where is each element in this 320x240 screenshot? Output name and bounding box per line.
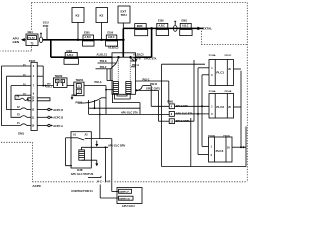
svg-text:A,B,C: A,B,C xyxy=(182,24,189,27)
svg-text:EPLC CNTL: EPLC CNTL xyxy=(176,120,191,123)
svg-text:EPLC STA: EPLC STA xyxy=(176,105,188,108)
svg-text:GEN: GEN xyxy=(13,40,20,44)
svg-text:P62-R: P62-R xyxy=(134,57,141,60)
svg-text:COIL-1: COIL-1 xyxy=(46,87,54,89)
svg-text:T1,T2: T1,T2 xyxy=(28,37,35,40)
svg-text:GPLC STA: GPLC STA xyxy=(144,57,157,60)
svg-text:P407: P407 xyxy=(29,59,36,63)
svg-text:P310B: P310B xyxy=(225,91,232,93)
svg-text:ACPC D: ACPC D xyxy=(53,108,63,112)
svg-text:K2: K2 xyxy=(100,13,104,17)
svg-text:A,B,C: A,B,C xyxy=(108,36,115,39)
svg-text:GB1: GB1 xyxy=(28,30,34,34)
svg-text:ACPC: ACPC xyxy=(32,184,42,188)
svg-text:P62-E: P62-E xyxy=(100,60,107,63)
svg-text:K38: K38 xyxy=(77,168,83,172)
svg-text:A,B,C: A,B,C xyxy=(67,54,74,57)
svg-text:28V: 28V xyxy=(47,84,51,86)
svg-text:P62-B: P62-B xyxy=(76,101,83,104)
svg-text:PB61: PB61 xyxy=(167,101,174,104)
svg-text:APU GLC STATUS: APU GLC STATUS xyxy=(71,172,94,176)
svg-text:A,B,C: A,B,C xyxy=(85,36,92,39)
svg-text:A2,B2,C2: A2,B2,C2 xyxy=(108,47,119,50)
svg-text:A3,B3,C3: A3,B3,C3 xyxy=(133,54,144,57)
svg-text:A5MP2-15: A5MP2-15 xyxy=(119,197,130,200)
svg-text:E305: E305 xyxy=(84,31,90,34)
svg-text:A1,B1,C1: A1,B1,C1 xyxy=(97,54,108,57)
svg-text:CONTACTOR #1: CONTACTOR #1 xyxy=(71,189,93,193)
svg-text:P310A: P310A xyxy=(209,54,216,57)
svg-text:A,B,C: A,B,C xyxy=(159,24,166,27)
svg-text:TB201: TB201 xyxy=(76,78,84,82)
svg-text:TB262: TB262 xyxy=(55,74,63,78)
svg-text:E106: E106 xyxy=(108,31,114,34)
svg-text:P62-A: P62-A xyxy=(95,81,102,84)
svg-text:EXTAL: EXTAL xyxy=(203,27,213,31)
svg-text:E801: E801 xyxy=(182,20,188,23)
svg-text:PLC3: PLC3 xyxy=(216,149,224,153)
svg-text:APU GLC STA: APU GLC STA xyxy=(121,111,138,114)
svg-text:APU GLC DRV: APU GLC DRV xyxy=(108,144,126,147)
svg-text:P310A: P310A xyxy=(209,90,216,93)
svg-text:ACPC A: ACPC A xyxy=(53,124,63,128)
svg-text:K3: K3 xyxy=(76,13,80,17)
svg-text:P310A: P310A xyxy=(208,134,215,137)
svg-text:P310C: P310C xyxy=(223,135,230,137)
svg-text:E106: E106 xyxy=(158,20,164,23)
svg-text:TRU: TRU xyxy=(121,13,127,17)
svg-text:PLC1: PLC1 xyxy=(216,71,224,75)
svg-text:ACPC B: ACPC B xyxy=(53,116,63,120)
svg-text:P62-C: P62-C xyxy=(143,78,150,81)
svg-text:APU GLC STA: APU GLC STA xyxy=(176,113,193,116)
svg-text:EM3: EM3 xyxy=(137,24,143,28)
svg-text:E302: E302 xyxy=(67,50,73,53)
svg-text:A5MP1-P: A5MP1-P xyxy=(119,190,129,193)
svg-text:PLC2: PLC2 xyxy=(216,105,224,109)
svg-text:APU GCU: APU GCU xyxy=(122,204,135,208)
svg-text:GPLC CNTL: GPLC CNTL xyxy=(146,88,161,91)
svg-text:P62-A: P62-A xyxy=(132,64,139,67)
svg-text:EM1: EM1 xyxy=(18,132,24,136)
svg-text:P62-F: P62-F xyxy=(100,66,107,69)
svg-text:POR: POR xyxy=(43,24,49,28)
svg-text:P62-D: P62-D xyxy=(150,83,157,86)
svg-text:P310C: P310C xyxy=(225,55,232,57)
svg-text:J4-C – J4-R: J4-C – J4-R xyxy=(96,180,110,184)
